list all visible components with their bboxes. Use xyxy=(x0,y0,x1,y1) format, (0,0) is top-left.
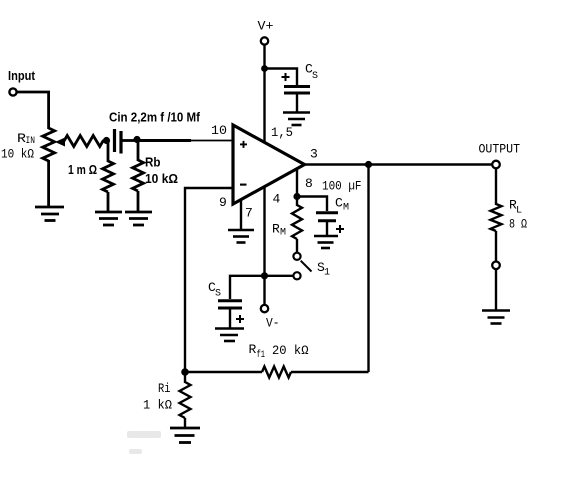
svg-text:R: R xyxy=(272,222,280,237)
svg-text:1: 1 xyxy=(324,268,330,279)
pin 8 junction xyxy=(293,193,300,200)
wire down to pot top xyxy=(47,91,50,129)
ground under RIN xyxy=(35,207,64,221)
feedback wire from output node down xyxy=(367,165,369,373)
wire input to pot xyxy=(17,91,50,94)
wiper arrow xyxy=(55,138,65,147)
svg-text:V+: V+ xyxy=(258,19,274,34)
junction on supply line xyxy=(261,272,268,279)
junction V+ / CS xyxy=(261,65,268,72)
svg-text:C: C xyxy=(335,196,343,211)
node B junction xyxy=(133,136,140,143)
supply wire V+ to pin 1,5 xyxy=(263,45,265,144)
svg-text:Input: Input xyxy=(8,68,36,83)
output wire pin 3 xyxy=(303,163,493,165)
switch S1 xyxy=(293,253,330,280)
resistor Ri xyxy=(143,372,191,428)
svg-text:V-: V- xyxy=(266,316,280,331)
svg-text:20 kΩ: 20 kΩ xyxy=(272,343,309,358)
wire CS bottom to ground xyxy=(229,309,231,328)
svg-text:7: 7 xyxy=(245,206,253,221)
faint watermark remnants xyxy=(127,431,161,454)
capacitor CM xyxy=(316,178,362,233)
svg-text:10 kΩ: 10 kΩ xyxy=(1,147,34,162)
wire CS bottom from supply junction xyxy=(230,276,265,299)
resistor RL xyxy=(491,198,528,232)
svg-text:3: 3 xyxy=(310,147,318,162)
resistor 1 m ohm (horizontal) xyxy=(64,136,103,178)
svg-text:8: 8 xyxy=(305,176,313,191)
resistor to ground under node A xyxy=(103,161,114,192)
wire node A down xyxy=(107,141,110,162)
feedback wire bottom to Rf1 xyxy=(291,371,369,373)
svg-text:f1: f1 xyxy=(257,349,266,361)
ground under CM xyxy=(314,236,338,248)
svg-text:10: 10 xyxy=(211,123,227,138)
ground under Ri xyxy=(170,428,200,443)
svg-text:Ri: Ri xyxy=(158,381,171,396)
wire output to RL xyxy=(495,168,497,205)
ground under Rb xyxy=(125,212,152,225)
wire pot to ground xyxy=(47,160,50,207)
svg-text:S: S xyxy=(312,71,318,82)
wire terminal to ground xyxy=(495,269,497,310)
ground under RL xyxy=(482,311,510,324)
wire to ground xyxy=(107,192,110,212)
V+ terminal xyxy=(258,19,274,45)
svg-text:100 µF: 100 µF xyxy=(322,178,362,193)
svg-text:8 Ω: 8 Ω xyxy=(509,217,527,232)
svg-text:Cin 2,2m f /10 Mf: Cin 2,2m f /10 Mf xyxy=(109,110,201,125)
op-amp U1 xyxy=(233,125,305,204)
resistor Rb xyxy=(133,141,179,212)
OUTPUT terminal xyxy=(479,141,521,168)
wire - input to feedback corner xyxy=(185,188,234,372)
ground under CS bottom xyxy=(215,329,244,342)
pin 7 wire xyxy=(240,199,242,230)
pin 8 stub wire xyxy=(296,168,298,197)
output node junction xyxy=(365,161,372,168)
svg-text:9: 9 xyxy=(219,195,227,210)
svg-text:1 m Ω: 1 m Ω xyxy=(68,162,97,177)
svg-text:1,5: 1,5 xyxy=(271,125,293,140)
svg-text:OUTPUT: OUTPUT xyxy=(479,141,521,156)
svg-text:4: 4 xyxy=(273,192,281,207)
wire Rf1 to Ri junction xyxy=(185,371,262,373)
capacitor CS (top bypass) xyxy=(282,62,319,94)
svg-text:M: M xyxy=(343,203,349,214)
potentiometer RIN xyxy=(1,128,55,162)
svg-text:M: M xyxy=(280,228,286,239)
resistor RM xyxy=(272,197,302,253)
wire CM from pin 8 xyxy=(297,197,327,212)
ground under pin 7 xyxy=(228,230,254,243)
svg-text:1 kΩ: 1 kΩ xyxy=(143,398,172,413)
svg-text:L: L xyxy=(516,206,522,217)
node A junction xyxy=(103,137,110,144)
svg-text:R: R xyxy=(249,342,257,357)
ground under CS top xyxy=(283,113,310,126)
svg-text:Rb: Rb xyxy=(145,155,161,170)
wire RL to lower terminal xyxy=(495,231,497,262)
V- terminal xyxy=(261,305,280,331)
wire to CS top xyxy=(265,69,298,86)
svg-text:S: S xyxy=(215,289,221,300)
supply wire pin 4 to V- xyxy=(263,186,265,305)
capacitor CS (bottom bypass) xyxy=(208,280,244,323)
wire CS to ground xyxy=(296,94,298,112)
capacitor Cin xyxy=(109,110,201,154)
input terminal xyxy=(8,68,36,96)
svg-text:10 kΩ: 10 kΩ xyxy=(145,171,178,186)
svg-text:IN: IN xyxy=(26,136,36,147)
wire 1m to node A xyxy=(102,140,108,143)
ground under 1m resistor xyxy=(95,212,122,225)
RL lower terminal xyxy=(492,262,500,270)
wire S1 to supply line xyxy=(265,275,294,277)
resistor Rf1 xyxy=(249,342,309,378)
wire Cin to node B xyxy=(122,139,138,142)
wire node B to op-amp (thick part) xyxy=(137,139,191,142)
junction Ri / Rf1 / feedback xyxy=(181,368,189,376)
wire CM to ground xyxy=(326,222,328,235)
wire to + input (thin part) xyxy=(191,140,234,142)
